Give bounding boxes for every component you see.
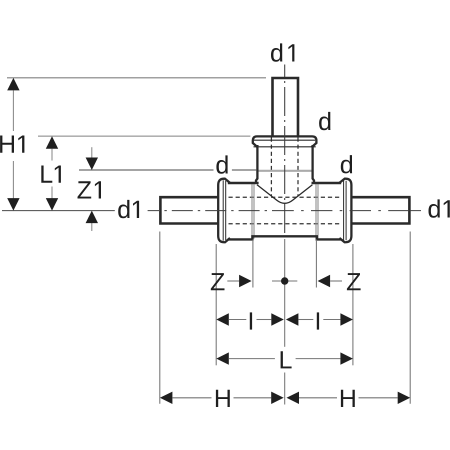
Z1 dimension arrows (outside) bbox=[91, 147, 93, 158]
H dimension row bbox=[160, 392, 173, 404]
hidden dashed bore line horizontal lower bbox=[229, 223, 342, 225]
label L bbox=[281, 351, 292, 368]
label d left bbox=[216, 155, 227, 173]
insertion depth mark left (gray double line) bbox=[251, 184, 253, 238]
branch bead lower edge bbox=[254, 146, 316, 148]
branch bead inner line bbox=[254, 139, 315, 141]
funnel V interior bbox=[257, 185, 312, 204]
branch socket wall right bbox=[313, 145, 314, 184]
label L1 bbox=[41, 166, 61, 183]
branch socket bead outline bbox=[253, 136, 317, 147]
extension line bead top level (L1) bbox=[38, 135, 250, 137]
centerline lead-in left with d1 label gap bbox=[2, 210, 115, 212]
hidden dashed bore line horizontal upper bbox=[229, 196, 342, 198]
label I left bbox=[250, 312, 252, 329]
tee body fill bbox=[218, 136, 352, 241]
socket bead left inner lines bbox=[222, 180, 224, 240]
centerline lead-out right bbox=[410, 210, 421, 212]
I dimension row bbox=[216, 313, 229, 325]
branch socket wall left bbox=[256, 145, 257, 184]
label d right bbox=[341, 155, 352, 173]
centerline horizontal left (dash-dot) bbox=[160, 210, 285, 212]
L dimension row bbox=[216, 352, 229, 364]
hidden dashed bore line vertical left bbox=[270, 138, 272, 197]
pipe top (d1 branch pipe) bbox=[273, 78, 299, 141]
label d1 right bbox=[429, 199, 450, 217]
label H right bbox=[341, 390, 355, 407]
centerline horizontal right (dash-dot) bbox=[285, 210, 411, 212]
body bottom edge (stepped at insertion marks) bbox=[228, 236, 341, 239]
label Z1 bbox=[78, 181, 102, 198]
label d top bbox=[319, 112, 330, 130]
hidden dashed bore line vertical right bbox=[297, 138, 299, 197]
label H left bbox=[216, 390, 230, 407]
extension lines below bbox=[159, 232, 161, 404]
extension line insertion depth (Z1) with d label gap bbox=[79, 169, 214, 171]
label Z right bbox=[347, 273, 361, 290]
body top edge right segment bbox=[312, 182, 342, 184]
pipe right (d1) bbox=[348, 197, 409, 223]
socket bead left outline bbox=[218, 179, 230, 243]
label I right bbox=[317, 312, 319, 329]
label d1 top bbox=[271, 43, 294, 61]
L1 dimension line bbox=[51, 149, 53, 161]
label d1 left bbox=[118, 200, 139, 218]
centerline vertical (dash-dot) bbox=[284, 65, 286, 238]
body top edge left segment bbox=[228, 182, 259, 184]
label Z left bbox=[211, 273, 225, 290]
pipe left (d1) bbox=[160, 197, 222, 223]
center extension below body bbox=[284, 239, 286, 347]
socket bead right outline bbox=[339, 179, 351, 243]
socket bead right inner lines bbox=[343, 180, 345, 240]
label H1 bbox=[0, 136, 24, 153]
H1 dimension line bbox=[12, 90, 14, 131]
insertion depth mark branch (gray) bbox=[258, 170, 312, 172]
Z dimension row bbox=[227, 280, 239, 282]
insertion depth mark right (gray double line) bbox=[315, 184, 317, 238]
extension line top (pipe top level) bbox=[7, 77, 266, 79]
